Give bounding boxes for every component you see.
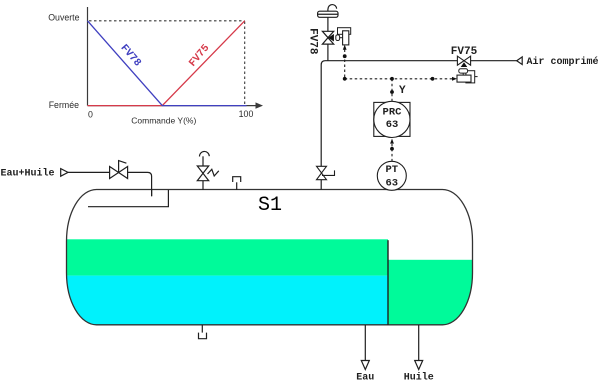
svg-text:0: 0 bbox=[88, 109, 93, 119]
svg-text:Y: Y bbox=[399, 85, 406, 97]
svg-text:PT: PT bbox=[385, 164, 398, 176]
svg-text:Huile: Huile bbox=[404, 371, 434, 380]
svg-text:S1: S1 bbox=[258, 194, 282, 217]
svg-text:100: 100 bbox=[239, 109, 254, 119]
svg-text:63: 63 bbox=[386, 119, 399, 131]
svg-text:Commande Y(%): Commande Y(%) bbox=[131, 116, 196, 126]
svg-text:FV75: FV75 bbox=[451, 46, 478, 58]
svg-text:FV78: FV78 bbox=[307, 28, 319, 55]
svg-text:Eau+Huile: Eau+Huile bbox=[1, 168, 55, 180]
svg-text:Fermée: Fermée bbox=[49, 100, 79, 110]
svg-text:Eau: Eau bbox=[356, 372, 374, 380]
svg-text:Air comprimé: Air comprimé bbox=[527, 56, 599, 68]
svg-text:Ouverte: Ouverte bbox=[48, 13, 79, 23]
svg-text:63: 63 bbox=[385, 178, 398, 190]
svg-text:PRC: PRC bbox=[383, 106, 403, 118]
